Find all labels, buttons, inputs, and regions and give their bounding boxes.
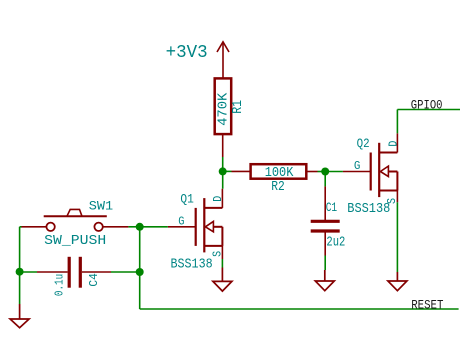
wire left vertical [19, 227, 21, 272]
wire C1 bottom [324, 256, 326, 271]
ground below Q2 [388, 272, 407, 291]
power +3V3 symbol [217, 42, 229, 79]
wire J3 down [139, 227, 141, 309]
svg-text:RESET: RESET [411, 298, 443, 313]
svg-text:SW_PUSH: SW_PUSH [44, 234, 106, 249]
svg-text:R2: R2 [271, 180, 285, 195]
transistor Q1 [168, 189, 223, 259]
svg-text:Q2: Q2 [357, 136, 370, 151]
wire R2 right to J2 [318, 171, 326, 173]
svg-text:0.1u: 0.1u [53, 274, 66, 296]
resistor R2 [232, 164, 318, 179]
svg-text:C1: C1 [326, 201, 338, 215]
svg-text:D: D [212, 196, 225, 202]
node junction J4 [16, 268, 24, 276]
svg-text:G: G [354, 160, 361, 173]
svg-text:BSS138: BSS138 [347, 202, 390, 217]
svg-text:C4: C4 [88, 273, 101, 286]
svg-text:2u2: 2u2 [326, 236, 345, 251]
svg-text:R1: R1 [231, 100, 246, 114]
svg-text:Q1: Q1 [180, 192, 194, 207]
capacitor C4 [37, 257, 111, 288]
wire left to SW1 [20, 226, 22, 228]
wire RESET [140, 308, 459, 310]
wire Q1 source down [221, 259, 223, 268]
wire J1 to R2 [223, 170, 232, 172]
node junction J3 [136, 223, 144, 231]
svg-text:100K: 100K [265, 166, 294, 181]
node junction J1 [219, 167, 227, 175]
wire SW1 to J3 [128, 226, 139, 228]
transistor Q2 [343, 133, 398, 202]
svg-text:+3V3: +3V3 [166, 43, 208, 63]
wire Q2 drain up [396, 110, 398, 134]
wire J2 down to C1 [324, 172, 326, 187]
wire Q1 drain to J1 [222, 171, 224, 188]
wire C4 right to J5 [111, 271, 140, 273]
switch SW1 [21, 209, 129, 231]
svg-text:G: G [178, 216, 184, 229]
ground left [10, 304, 29, 328]
wire J3 to Q1 gate [140, 226, 168, 228]
wire GPIO0 [397, 109, 460, 111]
wire Q2 source down [396, 202, 398, 272]
svg-text:470K: 470K [216, 92, 231, 126]
node junction J5 [136, 268, 144, 276]
wire J2 to Q2 gate [325, 171, 343, 173]
wire J4 to C4 [20, 271, 37, 273]
resistor R1 [215, 78, 232, 157]
ground below Q1 [213, 268, 232, 292]
svg-text:D: D [388, 141, 401, 147]
svg-text:BSS138: BSS138 [171, 258, 213, 273]
svg-text:GPIO0: GPIO0 [411, 98, 443, 113]
capacitor C1 [311, 186, 340, 255]
node junction J2 [321, 168, 329, 176]
wire R1 bottom [222, 157, 224, 171]
svg-text:S: S [212, 251, 225, 257]
ground below C1 [315, 270, 334, 291]
wire J4 down [19, 272, 21, 304]
svg-text:SW1: SW1 [89, 199, 114, 214]
